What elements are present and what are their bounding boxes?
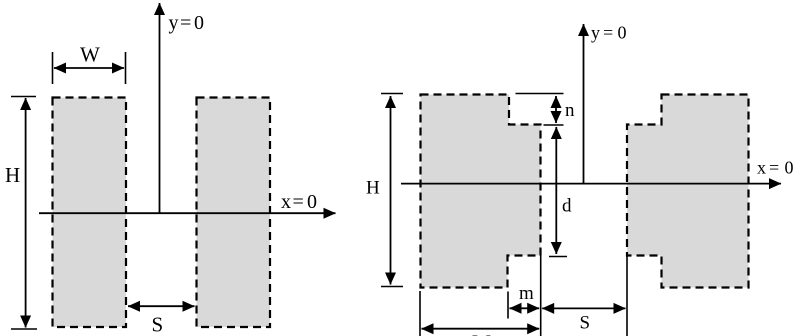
dimension H double arrow (left figure) <box>25 98 27 328</box>
dimension H extension tick bottom (right figure) <box>381 286 403 288</box>
svg-text:n: n <box>565 100 575 121</box>
dimension n top tick <box>516 93 564 95</box>
extension line left of W (right figure) <box>419 291 421 336</box>
extension line left of m <box>507 292 509 319</box>
dimension H extension tick top (left figure) <box>11 96 36 98</box>
patch rectangle right (left figure) <box>197 98 271 328</box>
dimension m double arrow <box>510 307 540 309</box>
dimension d bottom tick <box>549 256 567 258</box>
dimension H extension tick bottom (left figure) <box>11 328 37 330</box>
patch rectangle left (left figure) <box>53 98 127 328</box>
notched patch left (right figure) <box>421 95 541 288</box>
dimension H double arrow (right figure) <box>390 96 392 285</box>
dimension n double arrow <box>555 96 557 123</box>
svg-text:H: H <box>5 163 20 187</box>
y-axis (right figure) <box>583 24 585 184</box>
dimension W double arrow (right figure) <box>422 328 540 330</box>
svg-text:S: S <box>152 313 164 336</box>
svg-text:H: H <box>366 178 380 199</box>
notched patch right (right figure) <box>627 95 749 288</box>
dimension W extension tick left <box>52 52 54 84</box>
x-axis (left figure) <box>39 212 336 214</box>
svg-text:d: d <box>562 196 572 217</box>
svg-text:x=0: x=0 <box>757 158 794 178</box>
x-axis (right figure) <box>401 183 781 185</box>
svg-text:W: W <box>80 43 100 67</box>
dimension S double arrow (left figure) <box>128 305 195 307</box>
extension line right of S <box>626 256 628 336</box>
svg-text:y=0: y=0 <box>169 12 205 34</box>
y-axis (left figure) <box>159 3 161 214</box>
dimension n bottom tick <box>544 124 564 126</box>
svg-text:m: m <box>519 283 534 304</box>
svg-text:x=0: x=0 <box>281 191 317 213</box>
svg-text:y=0: y=0 <box>591 23 627 43</box>
dimension H extension tick top (right figure) <box>381 93 403 95</box>
extension line right of m / left of S <box>540 256 542 336</box>
svg-text:S: S <box>580 313 591 334</box>
dimension W extension tick right <box>125 52 127 84</box>
dimension W double arrow <box>54 67 124 69</box>
svg-text:W: W <box>473 332 491 336</box>
dimension S double arrow (right figure) <box>542 307 625 309</box>
dimension d double arrow <box>555 127 557 254</box>
